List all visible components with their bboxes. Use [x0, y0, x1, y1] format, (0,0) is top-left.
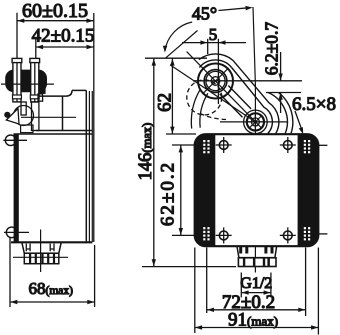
svg-text:146(max): 146(max) — [136, 123, 156, 181]
dimension 6.5×8 with leader — [292, 94, 336, 134]
lever arm edges — [220, 86, 251, 118]
svg-text:G1/2: G1/2 — [240, 275, 272, 292]
roller circles (front view) — [198, 64, 233, 99]
extension lines for 72±0.2 — [207, 248, 306, 317]
head shoulder arcs right — [199, 54, 293, 134]
45deg ray from vertex — [165, 31, 197, 59]
screw hole top-right — [280, 137, 328, 153]
head/body right edge lines (side view) — [86, 90, 92, 242]
roller centerlines and spokes — [203, 68, 228, 93]
screw hole bottom-right — [280, 227, 328, 243]
pivot circles (front view) — [244, 110, 268, 134]
lever hub circle (side view) — [14, 106, 34, 126]
dimension G1/2 — [240, 273, 272, 298]
front body outline — [195, 134, 319, 246]
lever axis line extended — [187, 52, 256, 122]
head block (side view) — [21, 90, 92, 130]
dimension 68(max) — [10, 237, 95, 307]
lever fork plate 1 (side view) — [12, 58, 22, 102]
front conduit thread block — [238, 258, 276, 267]
svg-text:62: 62 — [154, 93, 175, 112]
svg-text:60±0.15: 60±0.15 — [22, 0, 88, 22]
screw hole top-left — [216, 137, 232, 153]
lever pointer triangle (side view) — [4, 109, 19, 125]
vertical centerline (front view) — [253, 7, 255, 273]
extension lines for 91(max) — [195, 248, 319, 335]
roller (side view, black) — [5, 70, 47, 93]
lever lower bar between plates (side view) — [21, 102, 39, 131]
conduit flange slots (side view) — [26, 244, 54, 252]
dimension 6.2±0.7 — [193, 22, 302, 113]
dimension 62 upper — [154, 58, 175, 134]
release position axis line — [170, 65, 255, 122]
svg-text:5: 5 — [209, 25, 218, 44]
upper side screw (side view) — [3, 135, 27, 146]
body bottom edge (side view) — [11, 241, 92, 243]
extension lines for 62±0.2 — [172, 145, 220, 235]
lever fork plate 2 (side view) — [30, 58, 40, 102]
lever clamp bolt (side view) — [38, 88, 46, 101]
left black mounting strip — [195, 134, 216, 246]
top reference line (lever top) — [145, 57, 207, 59]
pivot spokes — [247, 114, 264, 131]
extension line bottom of 146(max) — [142, 266, 236, 268]
extension line at body top left — [166, 133, 196, 135]
conduit centerlines (side view) — [13, 230, 68, 273]
dimension 72±0.2 — [207, 292, 306, 313]
conduit terminal row (side view) — [24, 253, 59, 264]
slot dot cluster top-left — [203, 140, 209, 153]
dimension 91(max) — [195, 310, 319, 331]
dimension 42±0.15 — [32, 26, 95, 59]
body left edge thick bar (side view) — [14, 134, 19, 242]
svg-text:62±0.2: 62±0.2 — [158, 161, 179, 226]
conduit flange (side view) — [22, 243, 61, 254]
pivot horizontal centerline (front view) — [220, 121, 288, 123]
front conduit flange — [237, 246, 277, 258]
right black mounting strip — [298, 134, 319, 246]
dimension 146(max) — [136, 58, 156, 266]
dimension 62±0.2 — [158, 145, 184, 235]
lower side screw (side view) — [4, 227, 29, 238]
svg-text:6.5×8: 6.5×8 — [292, 94, 336, 115]
dimension 60±0.15 — [17, 0, 94, 242]
slot dot cluster bottom-right — [304, 227, 310, 240]
svg-text:6.2±0.7: 6.2±0.7 — [262, 22, 282, 76]
roller path arcs left — [191, 89, 207, 129]
body top edge (side view) — [13, 133, 92, 135]
slot dot cluster bottom-left — [203, 227, 209, 240]
svg-text:42±0.15: 42±0.15 — [32, 26, 95, 47]
roller axle centerline (side view) — [1, 83, 54, 85]
dimension 45 degrees — [163, 4, 253, 53]
slot dot cluster top-right — [304, 140, 310, 153]
screw hole bottom-left — [216, 227, 232, 243]
svg-text:45°: 45° — [192, 4, 217, 24]
hub step blocks above body (side view) — [21, 125, 33, 133]
svg-text:91(max): 91(max) — [228, 310, 278, 331]
dashed circle alternate roller position — [187, 80, 226, 120]
dimension 5 (roller width) — [182, 25, 246, 104]
svg-text:68(max): 68(max) — [29, 279, 74, 298]
